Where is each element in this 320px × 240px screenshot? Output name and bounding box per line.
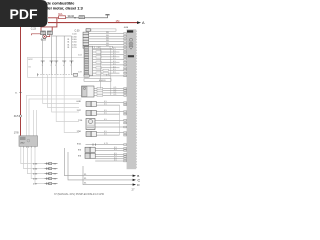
sensor box 7/16 <box>78 119 123 130</box>
red fuse feed line <box>48 17 59 19</box>
PDF badge <box>0 0 48 27</box>
splice dashed line <box>37 73 77 76</box>
row at column bottom <box>84 75 123 78</box>
svg-text:37 (MANUAL 4CV) PUMP-EC/DSL23-: 37 (MANUAL 4CV) PUMP-EC/DSL23-3 GHD <box>54 193 104 196</box>
wire after fuse <box>66 15 108 17</box>
ECU scalloped right edge <box>135 30 137 168</box>
wire column row 9 <box>93 69 124 71</box>
wire column row 4 <box>93 56 120 59</box>
red label on main line <box>116 19 120 23</box>
connector row T4 <box>72 38 123 42</box>
svg-text:27: 27 <box>132 187 136 191</box>
wire from center box row 1 <box>94 87 123 90</box>
svg-text:15I: 15I <box>116 19 120 23</box>
pump connector boxes <box>41 31 53 35</box>
svg-text:17/8: 17/8 <box>14 132 19 135</box>
vertical wires from pump cluster down to splice row <box>43 35 72 75</box>
label near relay top <box>14 132 19 135</box>
long connector bar top <box>93 46 113 49</box>
svg-text:31/32: 31/32 <box>68 14 75 18</box>
row 1 long connector 4/2 <box>75 29 117 33</box>
wire: bottom bus feeders <box>65 148 135 185</box>
ECU U1 body <box>127 29 137 169</box>
svg-text:4: 4 <box>63 65 64 67</box>
wire column row 7 <box>93 64 124 66</box>
footer <box>54 187 135 195</box>
wire: light routing left column to rows <box>34 75 80 136</box>
pump motor M1 <box>43 35 47 39</box>
wire column row 2 <box>93 51 120 54</box>
pump label <box>41 38 47 42</box>
boundary box labels <box>28 59 33 68</box>
connector row T2 <box>72 32 123 36</box>
ECU pin boxes <box>124 33 127 162</box>
svg-text:2: 2 <box>50 65 51 67</box>
connector row T6 <box>72 43 123 47</box>
svg-text:C:23: C:23 <box>31 28 37 31</box>
wire from center box row 2 <box>94 89 123 92</box>
svg-text:1: 1 <box>42 65 43 67</box>
svg-text:4/2: 4/2 <box>98 47 101 49</box>
svg-text:C: C <box>138 178 141 182</box>
svg-text:5: 5 <box>70 65 71 67</box>
wire column row 5 <box>93 58 124 60</box>
title line 2 <box>31 7 83 11</box>
wire vertical branch b <box>110 48 112 95</box>
svg-text:B: B <box>137 174 139 178</box>
ECU mid label <box>128 55 134 57</box>
title line 1 <box>33 2 74 6</box>
red main feed line with arrow A <box>48 21 145 25</box>
svg-text:C:30: C:30 <box>75 31 81 33</box>
component boundary box around splice area <box>28 57 89 77</box>
svg-text:PDF: PDF <box>10 6 38 22</box>
column side labels <box>78 54 82 73</box>
svg-text:31/5: 31/5 <box>14 115 19 118</box>
wire vertical branch c <box>119 105 121 135</box>
connector T symbols row <box>41 61 74 63</box>
red riser to pump line <box>41 18 57 31</box>
fuse F1 <box>58 13 66 19</box>
wire column row 10 <box>93 72 120 75</box>
center stacked connector column <box>78 46 123 75</box>
terminal T at x107 <box>105 14 109 16</box>
junction on left rail <box>14 115 22 118</box>
connector row T5 <box>72 40 123 44</box>
wire column row 1 <box>93 48 124 50</box>
wire column row 3 <box>93 53 124 55</box>
sensor row B 7/47 <box>77 110 124 116</box>
wire from center box row 4 <box>94 94 123 97</box>
sensor row A 6/46 <box>77 101 124 107</box>
wire: light routing from relay top to center box <box>27 95 82 136</box>
connector pin labels under T row <box>42 65 72 67</box>
red branch left of pump <box>31 28 41 36</box>
ECU inner symbols <box>129 38 133 49</box>
connector row T7 <box>72 46 123 50</box>
injector group F1 8/5 <box>78 147 123 153</box>
long connector bar 2 <box>84 79 111 82</box>
sensor row D 7/58 <box>77 131 124 137</box>
label on fuse wire <box>68 14 75 18</box>
junction dot on fuse wire <box>74 17 75 18</box>
svg-text:EMS20: EMS20 <box>99 80 106 82</box>
top connector rows group <box>72 29 123 49</box>
ECU top label <box>124 27 133 33</box>
value boxes bottom rows <box>103 69 109 74</box>
label on left rail <box>15 93 22 95</box>
connector row T3 <box>72 35 123 39</box>
wire column row 8 <box>93 66 120 69</box>
injector group F2 8/6 <box>78 153 123 159</box>
wire column row 6 <box>93 61 120 64</box>
wire from center box row 3 <box>94 92 123 95</box>
relay K1 box <box>19 136 38 148</box>
injector feed row 8/21 <box>77 143 123 146</box>
svg-text:30A: 30A <box>58 13 63 16</box>
bus arrows B C D <box>84 174 141 187</box>
center component box 6/26 <box>82 86 95 97</box>
red left rail <box>20 0 22 136</box>
svg-text:6/33: 6/33 <box>41 38 47 42</box>
wire size labels column <box>67 39 70 49</box>
wire: relay outputs to bottom-left connectors <box>21 146 45 183</box>
red link box to pump <box>47 35 50 37</box>
bottom-left connector rows <box>33 162 58 185</box>
wire vertical branch a <box>100 48 102 88</box>
component box on fuse wire <box>79 16 85 19</box>
svg-text:3: 3 <box>55 65 56 67</box>
extra ECU wires bottom <box>95 157 123 161</box>
